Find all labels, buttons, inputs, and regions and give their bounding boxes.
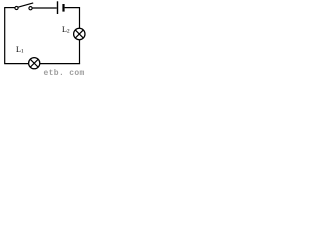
svg-text:etb. com: etb. com [44, 69, 85, 76]
